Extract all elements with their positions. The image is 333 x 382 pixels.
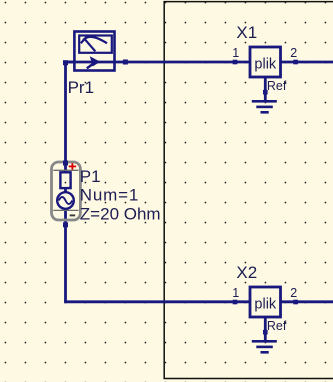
pin number 2 of X1 bbox=[290, 46, 297, 60]
wire: bottom horizontal from corner to X2 pin 1 bbox=[66, 300, 251, 301]
subcircuit frame rectangle bbox=[164, 2, 333, 379]
label X2 bbox=[236, 263, 257, 282]
label X1 bbox=[236, 23, 257, 42]
svg-text:plik: plik bbox=[254, 296, 277, 312]
node X2 ref pin bbox=[263, 330, 268, 335]
node P1 bottom pin bbox=[63, 222, 68, 227]
ground of X1 bbox=[252, 100, 277, 114]
pin number 1 of X2 bbox=[232, 286, 239, 300]
svg-text:X1: X1 bbox=[236, 23, 257, 42]
power source P1 bbox=[52, 162, 81, 220]
plus polarity mark bbox=[69, 163, 76, 169]
wire: X2 ground stub bbox=[264, 317, 267, 341]
label Pr1 bbox=[68, 78, 94, 97]
svg-text:2: 2 bbox=[290, 286, 297, 300]
node X1 ref pin bbox=[263, 90, 268, 95]
pin number 2 of X2 bbox=[290, 286, 297, 300]
wire: vertical from junction through P1 to bottom corner bbox=[64, 62, 67, 302]
ground of X2 bbox=[252, 340, 277, 354]
svg-text:2: 2 bbox=[290, 46, 297, 60]
svg-text:P1: P1 bbox=[80, 167, 101, 186]
svg-text:Ref: Ref bbox=[267, 79, 287, 93]
label Ref of X1 bbox=[267, 79, 287, 93]
value Z=20 Ohm bbox=[80, 205, 161, 224]
pin number 1 of X1 bbox=[232, 46, 239, 60]
power meter Pr1 bbox=[66, 32, 115, 71]
node at Pr1 right pin bbox=[123, 60, 128, 65]
junction at Pr1 left pin bbox=[63, 60, 68, 65]
label P1 bbox=[80, 167, 101, 186]
node X2 pin 1 bbox=[233, 300, 238, 305]
wire: top horizontal from junction through Pr1 to X1 pin 1 bbox=[66, 61, 251, 64]
subcircuit X1 bbox=[250, 47, 281, 77]
svg-text:Pr1: Pr1 bbox=[68, 78, 94, 97]
node X1 pin 2 bbox=[293, 60, 298, 65]
svg-text:1: 1 bbox=[232, 46, 239, 60]
svg-text:Z=20 Ohm: Z=20 Ohm bbox=[80, 205, 161, 224]
minus polarity mark bbox=[70, 214, 76, 216]
value Num=1 bbox=[80, 186, 139, 205]
node X1 pin 1 bbox=[233, 60, 238, 65]
svg-text:Num=1: Num=1 bbox=[80, 186, 139, 205]
wire: X1 ground stub bbox=[264, 77, 267, 101]
node X2 pin 2 bbox=[293, 300, 298, 305]
label Ref of X2 bbox=[267, 319, 287, 333]
wire: bottom horizontal from X2 pin 2 to right edge bbox=[281, 300, 333, 303]
subcircuit X2 bbox=[250, 287, 281, 317]
svg-text:X2: X2 bbox=[236, 263, 257, 282]
svg-text:plik: plik bbox=[254, 56, 277, 72]
svg-text:1: 1 bbox=[232, 286, 239, 300]
node P1 top pin bbox=[63, 161, 68, 166]
wire: top horizontal from X1 pin 2 to right edge bbox=[281, 61, 333, 64]
svg-text:Ref: Ref bbox=[267, 319, 287, 333]
